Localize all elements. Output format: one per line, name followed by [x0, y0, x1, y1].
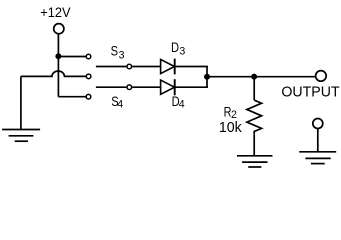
label D3: [171, 40, 185, 57]
ground G2: [237, 156, 273, 167]
junction dot R2 tap: [251, 74, 257, 80]
wire ground terminal drop: [317, 129, 319, 152]
label D4: [172, 94, 185, 111]
switch S3 pole: [127, 64, 132, 69]
svg-text:OUTPUT: OUTPUT: [281, 84, 339, 100]
svg-text:+12V: +12V: [40, 4, 70, 20]
svg-text:4: 4: [117, 99, 123, 111]
terminal OUTPUT: [316, 71, 327, 82]
wire output bus: [207, 76, 315, 78]
svg-text:4: 4: [179, 99, 185, 111]
svg-text:D: D: [171, 40, 179, 55]
wire D4 cathode to OR junction: [176, 86, 208, 88]
label R2: [224, 105, 237, 122]
wire diode-OR join vertical: [206, 67, 208, 88]
wire ground drop left: [20, 76, 22, 129]
diode D4: [161, 79, 175, 95]
wire to S3 upper throw contact: [58, 56, 86, 58]
wire D3 cathode to OR junction: [176, 66, 208, 68]
resistor R2: [247, 77, 262, 135]
wire +12V vertical drop: [57, 34, 59, 97]
label S3: [111, 44, 125, 62]
terminal ground reference: [313, 119, 323, 129]
ground G3: [299, 152, 336, 164]
junction dot +12V bus: [55, 53, 61, 59]
terminal +12V: [54, 24, 64, 34]
wire S4 pole to D4 anode: [132, 86, 160, 88]
diode D3: [161, 59, 175, 75]
svg-text:3: 3: [119, 49, 125, 61]
wire S3 pole to D3 anode: [132, 66, 160, 68]
svg-text:S: S: [111, 44, 118, 59]
contact shared middle throw: [86, 74, 91, 79]
junction dot diode-OR output: [204, 74, 210, 80]
svg-text:10k: 10k: [219, 120, 243, 136]
switch S4 pole: [127, 85, 132, 90]
contact S3 upper throw: [86, 54, 91, 59]
label S4: [111, 94, 123, 111]
wire ground feed with crossover hump: [21, 71, 86, 76]
ground G1: [2, 130, 40, 142]
svg-text:3: 3: [179, 46, 185, 58]
switch S3 arm: [96, 66, 127, 68]
contact S4 lower throw: [86, 94, 91, 99]
switch S4 arm: [96, 86, 127, 88]
wire to S4 lower throw contact: [58, 96, 86, 98]
wire R2 to ground: [253, 135, 255, 156]
